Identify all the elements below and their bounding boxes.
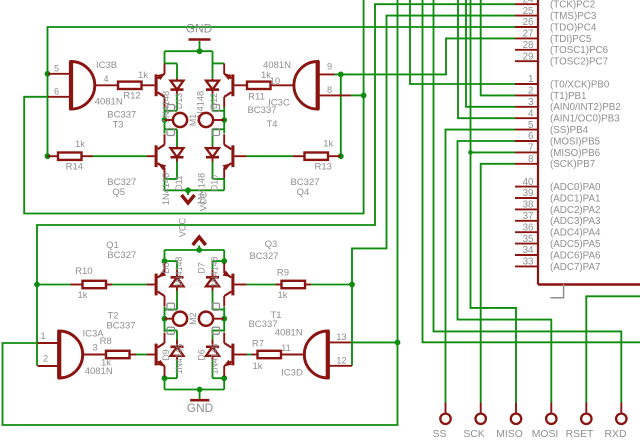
svg-text:D12: D12 (209, 93, 219, 109)
svg-text:9: 9 (327, 61, 332, 71)
transistor Q1 (106, 240, 166, 306)
svg-text:1N4148: 1N4148 (161, 91, 171, 123)
wire net PC5 (MCU pin27 to IC3C pin9 and R13) (335, 38, 516, 159)
wire bridge1 left half (T3/Q5 to motor node) (162, 63, 177, 190)
diode D12 (196, 79, 220, 123)
ground GND1 (top rail of bridge 1) (165, 22, 213, 64)
svg-text:M2: M2 (188, 312, 198, 324)
pad RXD (605, 403, 627, 441)
svg-text:(AIN0/INT2)PB2: (AIN0/INT2)PB2 (550, 102, 621, 113)
svg-text:4081N: 4081N (95, 97, 123, 108)
svg-text:4: 4 (103, 74, 108, 84)
svg-text:10: 10 (270, 76, 280, 86)
svg-text:Q3: Q3 (265, 239, 278, 250)
svg-text:1N4148: 1N4148 (197, 173, 207, 205)
svg-text:2: 2 (43, 353, 48, 363)
svg-text:BC327: BC327 (107, 250, 136, 261)
diode D6 (197, 340, 220, 375)
svg-text:(SCK)PB7: (SCK)PB7 (550, 159, 595, 170)
wire net PC4 (MCU pin26 to IC3B pin5 and R14) (45, 27, 515, 159)
transistor Q4 (223, 134, 320, 198)
pin 29 (TOSC2)PC7 of IC1 (515, 51, 608, 67)
pad SS (433, 403, 451, 441)
pad MISO (496, 403, 523, 441)
op-amp gate IC3D (275, 328, 352, 379)
svg-text:29: 29 (523, 51, 534, 62)
svg-text:IC3A: IC3A (82, 328, 104, 339)
diode D11 (161, 146, 184, 205)
svg-text:(TOSC1)PC6: (TOSC1)PC6 (550, 45, 609, 56)
svg-text:R11: R11 (248, 92, 265, 103)
wire net SS (MCU pin5 to SS pad) (446, 130, 516, 403)
svg-text:R13: R13 (314, 162, 331, 173)
wire net to right edge at y=342 (423, 0, 640, 342)
svg-text:34: 34 (523, 245, 534, 256)
wire net RSET (right edge to RSET pad) (586, 296, 640, 402)
svg-text:R12: R12 (123, 91, 140, 102)
svg-text:4081N: 4081N (263, 60, 291, 71)
transistor Q5 (93, 134, 166, 198)
pin 5 (SS)PB4 of IC1 (515, 120, 589, 136)
pin 33 (ADC7)PA7 of IC1 (515, 257, 600, 273)
supply VCC1 (bottom rail of bridge 1) (165, 187, 225, 211)
svg-text:IC3D: IC3D (281, 367, 303, 378)
svg-text:33: 33 (523, 257, 534, 268)
pin 36 (ADC4)PA4 of IC1 (515, 222, 601, 238)
svg-text:MOSI: MOSI (532, 429, 559, 440)
svg-text:(ADC0)PA0: (ADC0)PA0 (550, 182, 601, 193)
svg-text:R9: R9 (277, 268, 289, 279)
svg-text:D8: D8 (161, 262, 171, 273)
svg-text:1N4148: 1N4148 (210, 343, 220, 374)
svg-text:1k: 1k (323, 139, 333, 150)
resistor R7 (252, 339, 304, 373)
svg-text:Q4: Q4 (297, 187, 310, 198)
svg-text:4: 4 (528, 108, 534, 119)
pad MOSI (532, 403, 559, 441)
svg-text:(ADC1)PA1: (ADC1)PA1 (550, 193, 600, 204)
svg-text:12: 12 (336, 355, 346, 365)
svg-text:D10: D10 (210, 175, 220, 191)
svg-text:(ADC2)PA2: (ADC2)PA2 (550, 205, 600, 216)
svg-text:(TOSC2)PC7: (TOSC2)PC7 (550, 57, 608, 68)
wire net E (top edge to IC3C pin8 and IC3B pin6) (24, 0, 366, 214)
diode D8 (161, 256, 184, 290)
svg-text:(MISO)PB6: (MISO)PB6 (550, 148, 601, 159)
svg-text:1k: 1k (138, 70, 148, 81)
wire net MOSI (MCU pin6 to MOSI pad) (458, 141, 552, 403)
svg-text:13: 13 (336, 332, 346, 342)
svg-text:(ADC5)PA5: (ADC5)PA5 (550, 239, 601, 250)
pin 8 (SCK)PB7 of IC1 (515, 154, 595, 170)
svg-text:28: 28 (523, 40, 534, 51)
svg-text:SS: SS (433, 429, 447, 440)
origin cross mark of IC1 (551, 284, 564, 298)
svg-text:BC337: BC337 (106, 321, 135, 332)
wire net SCK (MCU pin8 to SCK pad) (481, 164, 515, 403)
op-amp gate IC3C (263, 60, 351, 110)
microcontroller IC1 body (538, 0, 640, 285)
svg-text:IC3B: IC3B (96, 60, 117, 71)
pad SCK (463, 403, 486, 441)
svg-text:7: 7 (528, 143, 533, 154)
wire net PC3 (MCU pin25 to IC3D pin12 and R9) (311, 16, 515, 366)
svg-text:1N4148: 1N4148 (174, 343, 184, 374)
svg-text:(TCK)PC2: (TCK)PC2 (550, 0, 595, 11)
svg-text:IC3C: IC3C (268, 97, 290, 108)
svg-text:(MOSI)PB5: (MOSI)PB5 (550, 136, 601, 147)
svg-text:3: 3 (528, 97, 534, 108)
wire net PB1 (MCU pin2) (481, 0, 515, 95)
resistor R11 (247, 70, 294, 103)
svg-text:25: 25 (523, 6, 534, 17)
svg-text:1N4148: 1N4148 (174, 256, 184, 287)
wire bridge1 right half (T4/Q4 to motor node) (213, 63, 228, 190)
motor M1 (165, 105, 225, 136)
svg-text:3: 3 (92, 343, 97, 353)
svg-text:D7: D7 (197, 262, 207, 273)
pin 6 (MOSI)PB5 of IC1 (515, 131, 601, 147)
pin 25 (TMS)PC3 of IC1 (515, 6, 597, 22)
svg-text:VCC: VCC (178, 217, 188, 237)
wire net PC2 (MCU pin24 to IC3A pin2 and R10) (34, 4, 515, 366)
diode D9 (161, 340, 184, 375)
motor M2 (165, 303, 225, 334)
pin 39 (ADC1)PA1 of IC1 (515, 188, 600, 204)
svg-text:(ADC3)PA3: (ADC3)PA3 (550, 216, 601, 227)
svg-text:D6: D6 (197, 349, 207, 360)
resistor R9 (277, 268, 311, 302)
svg-text:BC337: BC337 (248, 319, 277, 330)
svg-text:(ADC4)PA4: (ADC4)PA4 (550, 228, 601, 239)
transistor T1 (223, 310, 281, 376)
svg-text:(TMS)PC3: (TMS)PC3 (550, 11, 597, 22)
svg-text:4081N: 4081N (275, 328, 303, 339)
svg-text:M1: M1 (188, 114, 198, 126)
pin 4 (AIN1/OC0)PB3 of IC1 (515, 108, 620, 124)
svg-text:6: 6 (54, 86, 59, 96)
svg-text:37: 37 (523, 211, 534, 222)
svg-text:BC327: BC327 (249, 251, 278, 262)
svg-text:RXD: RXD (605, 429, 627, 440)
diode D13 (161, 79, 184, 123)
svg-text:1k: 1k (75, 139, 85, 150)
op-amp gate IC3B (48, 60, 123, 110)
wire net MISO (MCU pin7 to MISO pad) (468, 0, 516, 403)
pad RSET (566, 403, 594, 441)
pin 1 (T0/XCK)PB0 of IC1 (515, 74, 610, 90)
svg-text:36: 36 (523, 222, 534, 233)
svg-text:D11: D11 (174, 175, 184, 191)
resistor R8 (83, 336, 136, 368)
svg-text:Q5: Q5 (112, 187, 125, 198)
pin 26 (TDO)PC4 of IC1 (515, 17, 597, 33)
pin 7 (MISO)PB6 of IC1 (515, 143, 601, 159)
svg-text:27: 27 (523, 29, 534, 40)
svg-text:D13: D13 (174, 93, 184, 109)
svg-text:11: 11 (281, 343, 291, 353)
svg-text:1N4148: 1N4148 (161, 173, 171, 205)
pin 38 (ADC2)PA2 of IC1 (515, 200, 600, 216)
pin 28 (TOSC1)PC6 of IC1 (515, 40, 609, 56)
svg-text:(T0/XCK)PB0: (T0/XCK)PB0 (550, 79, 610, 90)
svg-text:GND: GND (186, 22, 212, 36)
pin 37 (ADC3)PA3 of IC1 (515, 211, 601, 227)
svg-text:(T1)PB1: (T1)PB1 (550, 91, 586, 102)
wire bridge2 left half (Q1/T2 to motor node) (162, 250, 177, 390)
svg-text:1: 1 (40, 331, 45, 341)
svg-text:R7: R7 (252, 339, 264, 350)
pin 24 (TCK)PC2 of IC1 (515, 0, 595, 11)
svg-text:8: 8 (528, 154, 534, 165)
svg-text:T3: T3 (112, 120, 123, 131)
wire net PB2 (MCU pin3) (466, 0, 515, 107)
transistor T3 (107, 63, 165, 130)
svg-text:5: 5 (528, 120, 534, 131)
diode D7 (197, 256, 220, 290)
transistor Q3 (223, 239, 282, 306)
pin 35 (ADC5)PA5 of IC1 (515, 234, 601, 250)
svg-text:(AIN1/OC0)PB3: (AIN1/OC0)PB3 (550, 114, 620, 125)
supply VCC2 (top rail of bridge 2) (165, 217, 225, 252)
diode D10 (197, 146, 220, 205)
svg-text:1N4148: 1N4148 (210, 256, 220, 287)
svg-text:T4: T4 (266, 119, 277, 130)
svg-text:4081N: 4081N (85, 366, 113, 377)
pin 34 (ADC6)PA6 of IC1 (515, 245, 601, 261)
svg-text:39: 39 (523, 188, 534, 199)
svg-text:(SS)PB4: (SS)PB4 (550, 125, 589, 136)
svg-text:(ADC7)PA7: (ADC7)PA7 (550, 262, 600, 273)
svg-text:SCK: SCK (463, 429, 484, 440)
svg-text:38: 38 (523, 200, 534, 211)
svg-text:1k: 1k (252, 361, 262, 372)
wire net PB0 (MCU pin1) (410, 0, 515, 84)
svg-text:2: 2 (528, 86, 533, 97)
wire bridge2 right half (Q3/T1 to motor node) (213, 250, 228, 390)
svg-text:MISO: MISO (496, 429, 523, 440)
svg-text:R14: R14 (66, 162, 83, 173)
svg-text:1k: 1k (277, 290, 287, 301)
resistor R14 (48, 139, 94, 173)
svg-text:24: 24 (523, 0, 534, 5)
svg-text:8: 8 (327, 85, 332, 95)
op-amp gate IC3A (38, 328, 113, 378)
resistor R13 (305, 139, 341, 173)
svg-text:6: 6 (528, 131, 534, 142)
svg-text:(ADC6)PA6: (ADC6)PA6 (550, 250, 601, 261)
svg-text:40: 40 (523, 177, 534, 188)
transistor T2 (106, 311, 165, 377)
pin 27 (TDI)PC5 of IC1 (515, 29, 592, 45)
svg-text:(TDI)PC5: (TDI)PC5 (550, 34, 592, 45)
svg-text:D9: D9 (161, 349, 171, 360)
pin 40 (ADC0)PA0 of IC1 (515, 177, 601, 193)
wire net PB3 (MCU pin4) (458, 0, 515, 118)
wire net RXD pad to top edge (434, 0, 622, 403)
svg-text:(TDO)PC4: (TDO)PC4 (550, 22, 597, 33)
wire net B (top edge to IC3D pin13 and IC3A pin1) (3, 0, 401, 425)
svg-text:RSET: RSET (566, 429, 594, 440)
transistor T4 (223, 63, 277, 129)
svg-text:1k: 1k (77, 290, 87, 301)
resistor R12 (95, 70, 148, 102)
resistor R10 (37, 266, 112, 301)
pin 3 (AIN0/INT2)PB2 of IC1 (515, 97, 621, 113)
svg-text:26: 26 (523, 17, 534, 28)
svg-text:GND: GND (187, 401, 213, 415)
svg-text:35: 35 (523, 234, 534, 245)
svg-text:R10: R10 (75, 266, 92, 277)
pin 2 (T1)PB1 of IC1 (515, 86, 586, 102)
svg-text:5: 5 (54, 63, 59, 73)
svg-text:1: 1 (528, 74, 533, 85)
ground GND2 (bottom rail of bridge 2) (165, 387, 225, 415)
